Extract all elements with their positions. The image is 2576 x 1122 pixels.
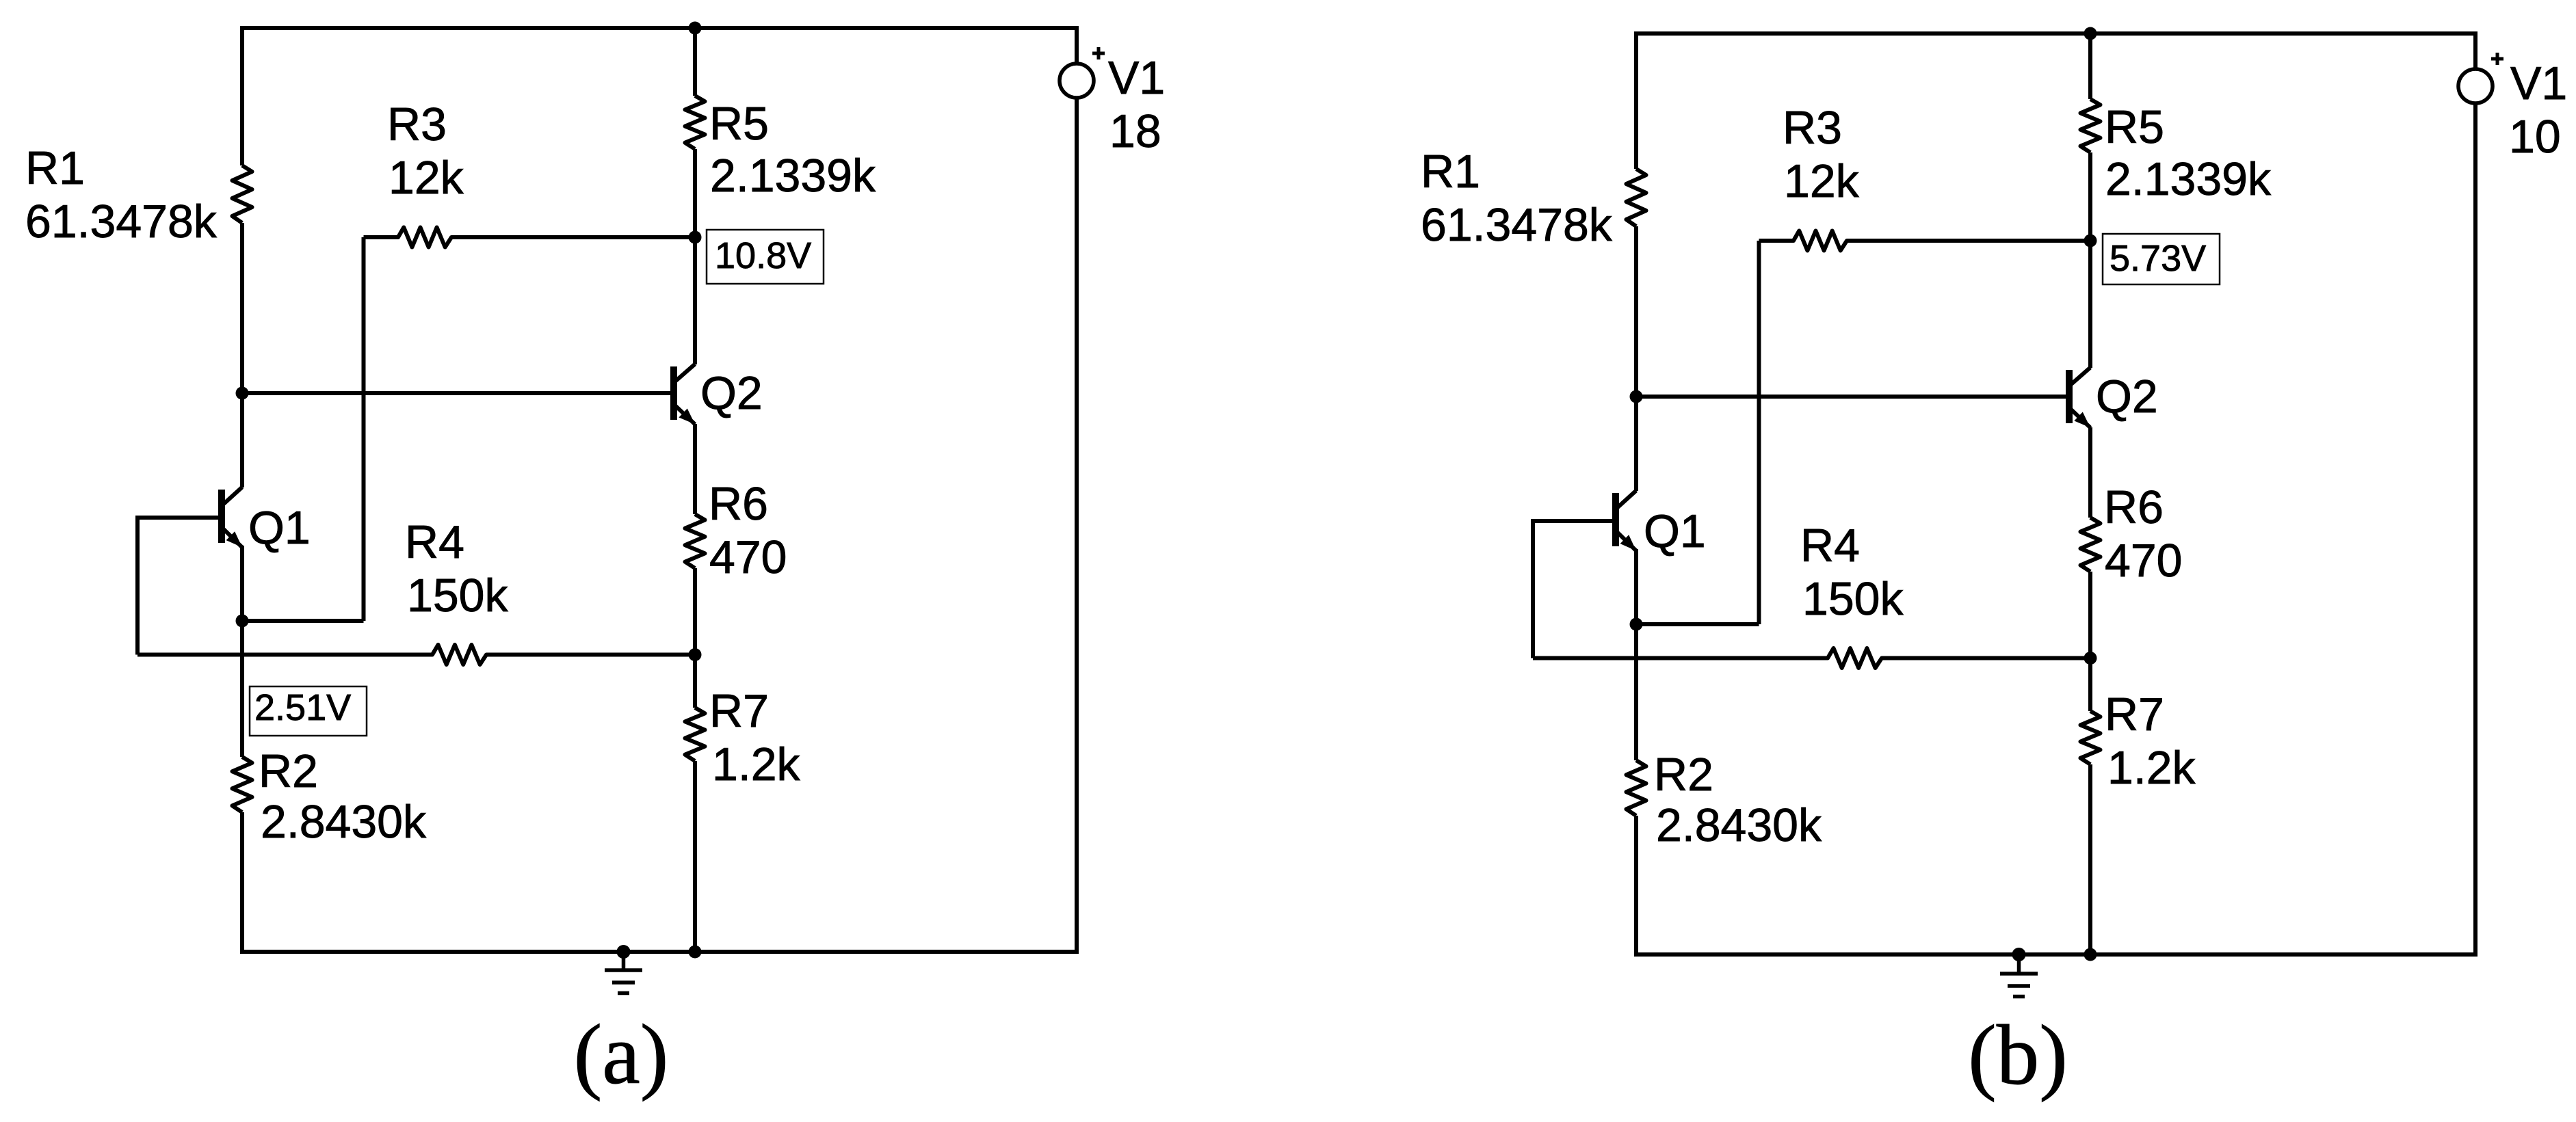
voltage source V1 (a) (1060, 47, 1105, 98)
wire: Q1 base loop (b) (1533, 521, 1612, 658)
voltage source V1 (b) (2458, 53, 2503, 103)
node: R5 top junction (b) (2084, 27, 2097, 40)
wire: R1 bottom to Q1 collector (a) (240, 223, 244, 487)
wire: R2 to bottom ground rail and V1 negative return (b) (1636, 103, 2475, 954)
svg-text:61.3478k: 61.3478k (1421, 199, 1613, 251)
resistor R1 (b) 61.3478k (1627, 169, 1646, 226)
wire: R7 to bottom rail (a) (693, 761, 697, 952)
svg-text:Q2: Q2 (2096, 371, 2158, 423)
transistor Q1 (b) (1612, 491, 1636, 551)
node: R5 top junction (a) (689, 22, 702, 35)
resistor R4 (b) 150k with leads (1533, 648, 2090, 668)
wire: R7 to bottom rail (b) (2088, 764, 2092, 954)
svg-text:10: 10 (2509, 111, 2561, 163)
svg-text:R4: R4 (1800, 520, 1860, 572)
svg-text:2.1339k: 2.1339k (710, 150, 876, 202)
svg-text:R1: R1 (25, 142, 85, 194)
resistor R3 (b) 12k with leads (1759, 231, 2091, 251)
transistor Q2 (a) (670, 364, 695, 425)
node: base of Q2 / R1-Q1 junction (a) (236, 387, 249, 400)
wire: R6 to R4/R7 node (a) (693, 568, 697, 655)
svg-text:V1: V1 (1108, 52, 1165, 104)
wire: Q2 base wire (a) (242, 391, 670, 395)
resistor R4 (a) 150k with leads (137, 645, 695, 665)
resistor R3 (a) 12k with leads (364, 228, 696, 248)
wire: top rail to R5 (a) (693, 28, 697, 96)
svg-text:Q1: Q1 (1644, 505, 1706, 557)
svg-text:10.8V: 10.8V (715, 235, 811, 276)
svg-text:2.8430k: 2.8430k (1656, 799, 1822, 851)
svg-text:470: 470 (709, 531, 787, 583)
wire: Q1 emitter down to R2 (b) (1634, 549, 1638, 760)
node: Q1 emitter / R2 / R3 junction (a) (236, 615, 249, 628)
wire: R5 to collector junction (a) (693, 149, 697, 237)
wire: Q2 emitter to R6 (a) (693, 424, 697, 514)
node: R3/R5/Q2-collector junction (a) (689, 231, 702, 244)
svg-text:R5: R5 (2105, 101, 2164, 153)
wire: VCC top rail (b) (1636, 34, 2475, 169)
node: R7 bottom junction (b) (2084, 948, 2097, 961)
svg-text:R2: R2 (1654, 749, 1713, 801)
svg-text:150k: 150k (1802, 573, 1904, 625)
svg-text:(a): (a) (574, 1008, 669, 1102)
wire: R5 to collector junction (b) (2088, 152, 2092, 241)
annotation: node voltage 2.51V (a) (250, 686, 367, 736)
wire: Q2 base wire (b) (1636, 395, 2066, 399)
svg-text:2.8430k: 2.8430k (261, 796, 427, 848)
wire: top rail to R5 (b) (2088, 34, 2092, 99)
svg-text:R1: R1 (1421, 146, 1480, 198)
node: R4/R6/R7 junction (a) (689, 648, 702, 661)
resistor R7 (a) 1.2k (685, 708, 705, 761)
resistor R5 (b) 2.1339k (2081, 99, 2101, 152)
wire: VCC top rail (a) (242, 28, 1077, 165)
resistor R6 (b) 470 (2081, 518, 2101, 572)
svg-text:R7: R7 (709, 685, 769, 737)
svg-text:150k: 150k (407, 570, 508, 622)
wire: Q2 emitter to R6 (b) (2088, 427, 2092, 518)
svg-text:R3: R3 (1783, 102, 1842, 154)
svg-text:R2: R2 (259, 745, 318, 797)
node: Q1 emitter / R2 / R3 junction (b) (1630, 618, 1643, 631)
svg-text:R4: R4 (405, 516, 464, 568)
wire: emitter node to R3 corner (b) (1636, 622, 1759, 626)
resistor R5 (a) 2.1339k (685, 96, 705, 149)
svg-text:12k: 12k (389, 152, 464, 204)
wire: junction to Q2 collector (b) (2088, 241, 2092, 368)
node: R3/R5/Q2-collector junction (b) (2084, 235, 2097, 248)
wire: R6 to R4/R7 node (b) (2088, 572, 2092, 658)
annotation: node voltage 10.8V (a) (707, 230, 824, 284)
svg-text:5.73V: 5.73V (2110, 238, 2206, 279)
svg-text:R5: R5 (709, 98, 769, 150)
svg-text:12k: 12k (1784, 155, 1860, 207)
wire: junction to Q2 collector (a) (693, 237, 697, 364)
node: base of Q2 / R1-Q1 junction (b) (1630, 390, 1643, 403)
resistor R2 (b) 2.8430k (1627, 760, 1646, 816)
ground symbol (a) (605, 945, 642, 993)
svg-text:61.3478k: 61.3478k (25, 196, 218, 248)
svg-text:R3: R3 (387, 98, 447, 150)
svg-text:1.2k: 1.2k (712, 738, 801, 790)
wire: node to R7 (b) (2088, 658, 2092, 712)
svg-text:R6: R6 (2104, 481, 2164, 533)
wire: R2 to bottom ground rail and V1 negative return (a) (242, 98, 1077, 952)
svg-text:18: 18 (1109, 105, 1161, 157)
svg-text:R6: R6 (709, 478, 768, 530)
resistor R7 (b) 1.2k (2081, 711, 2101, 764)
resistor R1 (a) 61.3478k (233, 165, 252, 223)
transistor Q2 (b) (2066, 368, 2090, 428)
svg-text:Q2: Q2 (700, 367, 763, 419)
wire: emitter node to R3 corner (a) (242, 619, 364, 623)
svg-text:R7: R7 (2105, 689, 2164, 740)
wire: node to R7 (a) (693, 655, 697, 708)
annotation: node voltage 5.73V (b) (2103, 234, 2220, 284)
svg-text:(b): (b) (1968, 1009, 2068, 1103)
resistor R2 (a) 2.8430k (233, 757, 252, 812)
resistor R6 (a) 470 (685, 514, 705, 568)
wire: R3 left vertical (b) (1757, 241, 1761, 624)
svg-text:2.51V: 2.51V (254, 687, 351, 728)
transistor Q1 (a) (218, 487, 242, 548)
wire: Q1 emitter down to R2 (a) (240, 546, 244, 757)
svg-text:1.2k: 1.2k (2107, 742, 2196, 794)
svg-text:470: 470 (2105, 535, 2182, 587)
svg-text:Q1: Q1 (248, 502, 311, 554)
node: R7 bottom junction (a) (689, 946, 702, 959)
wire: Q1 base loop (a) (137, 518, 218, 655)
wire: R3 left vertical (a) (362, 237, 366, 621)
svg-text:V1: V1 (2510, 57, 2567, 109)
svg-text:2.1339k: 2.1339k (2105, 153, 2272, 205)
node: R4/R6/R7 junction (b) (2084, 652, 2097, 665)
wire: R1 bottom to Q1 collector (b) (1634, 226, 1638, 491)
ground symbol (b) (2000, 948, 2038, 997)
